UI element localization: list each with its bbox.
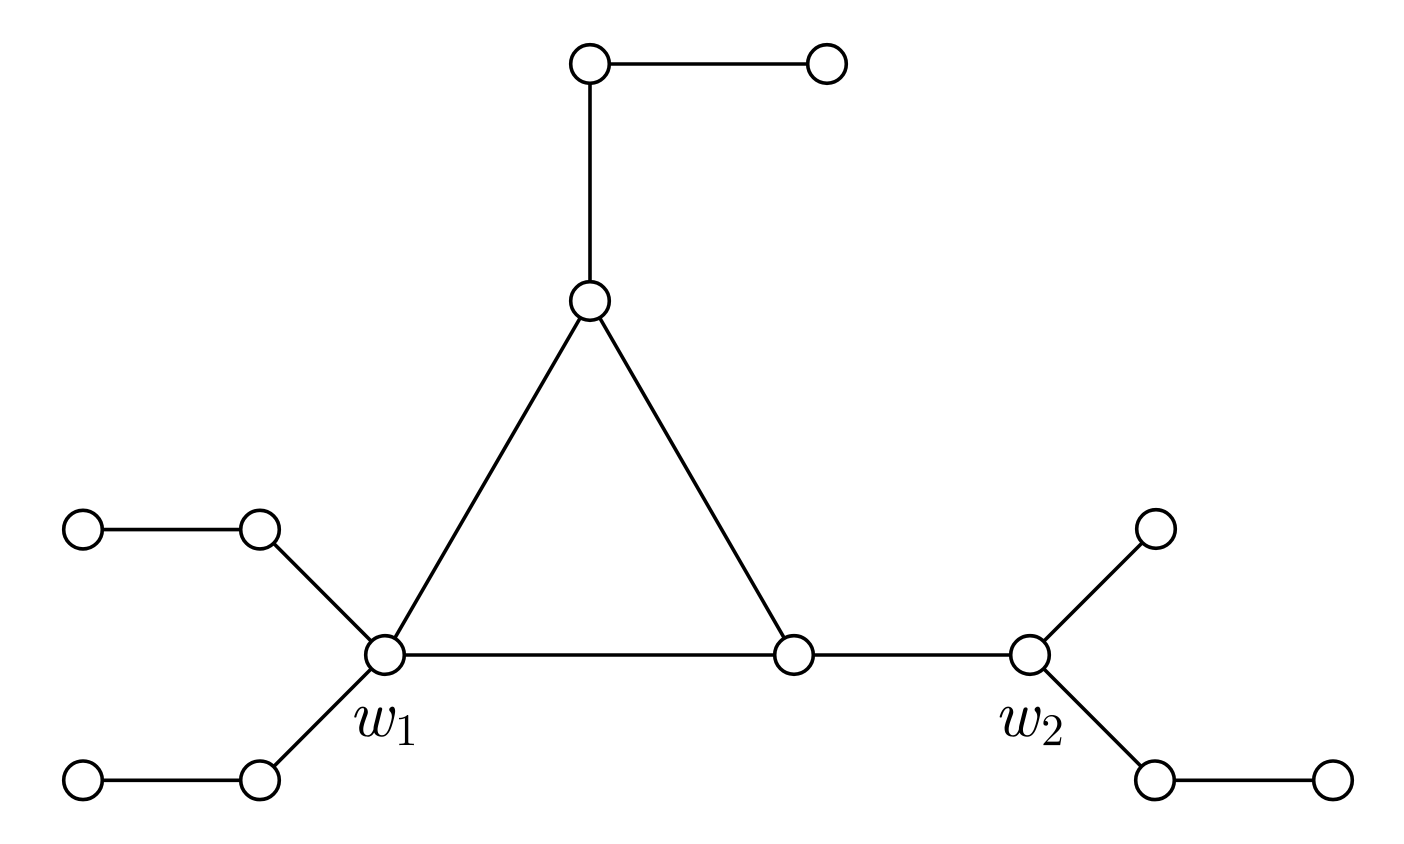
node A (top-left of top pair) (571, 45, 610, 84)
node F (w2) (1011, 636, 1050, 675)
wire edge E-F (middle horizontal) (794, 653, 1030, 657)
wire edge D-G (up-left diagonal) (260, 530, 385, 655)
node B (top-right of top pair) (808, 45, 847, 84)
node I (lower-left middle) (241, 761, 280, 800)
wire edge G-H (upper-left horizontal) (83, 528, 260, 532)
node H (upper-left end) (64, 510, 103, 549)
label w1 (354, 707, 414, 745)
node K (upper-right) (1137, 510, 1176, 549)
wire edge D-E (triangle base) (385, 653, 794, 657)
node J (lower-left end) (64, 761, 103, 800)
node C (triangle apex) (571, 282, 610, 321)
node D (w1, triangle bottom-left) (366, 636, 405, 675)
wire edge D-I (down-left diagonal) (260, 655, 385, 780)
wire edge A-C (vertical) (588, 64, 592, 301)
node M (lower-right end) (1314, 761, 1353, 800)
node L (lower-right middle) (1136, 761, 1175, 800)
wire edge I-J (lower-left horizontal) (83, 778, 260, 782)
wire edge C-E (triangle right side) (590, 301, 794, 655)
wire edge F-K (up-right diagonal) (1030, 529, 1156, 655)
node G (upper-left middle) (241, 510, 280, 549)
wire edge F-L (down-right diagonal) (1030, 655, 1155, 780)
node E (triangle bottom-right) (775, 636, 814, 675)
label w2 (1000, 707, 1062, 745)
wire edge L-M (lower-right horizontal) (1155, 778, 1333, 782)
wire edge C-D (triangle left side) (385, 301, 590, 655)
wire edge A-B (top horizontal) (590, 62, 827, 66)
